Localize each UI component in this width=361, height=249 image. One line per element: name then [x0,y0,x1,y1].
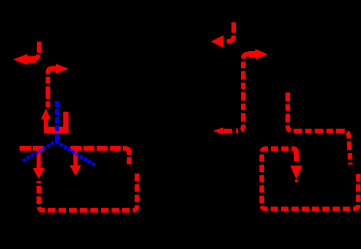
arrowhead: right circuit discharge loop, pointing down [290,166,302,183]
wire: left circuit input path vertical segment with corner [29,42,39,59]
wire: right circuit switch path corner and long vertical run [236,54,249,131]
wire: right circuit mid rail dash [224,129,232,133]
wire: right circuit inner loop corner down to arrow [293,149,297,161]
arrowhead: left circuit input path, pointing left [13,54,37,65]
wire: blue right diagonal dotted branch [57,142,93,164]
arrowhead: right circuit input path, pointing left [211,35,224,47]
wire: blue left diagonal dotted branch [21,141,57,163]
wire: right circuit discharge loop feed vertical with corner right [288,93,351,165]
wire: right circuit discharge loop right side lower segment and bottom [262,149,359,209]
wire: left circuit ground rail left segment [20,146,46,151]
arrowhead: left circuit switch path, pointing right [56,64,69,74]
arrowhead: left loop left branch, pointing down [33,147,45,179]
wire: left circuit bottom loop (right side, bottom, left side) [39,174,137,211]
wire: blue node stem, vertical dashed [55,101,59,143]
wire: right circuit input path vertical segment with corner [226,22,234,41]
wire: left circuit U-shaped return segment [44,112,69,133]
arrowhead: right circuit mid rail, pointing left [213,127,223,134]
wire: left circuit switch path corner and vertical run down [48,68,56,107]
wire: left circuit ground rail right segment with corner down [70,148,129,164]
arrowhead: left loop right branch, pointing down [70,147,82,176]
arrowhead: left circuit return path, pointing up [41,108,51,119]
arrowhead: right circuit switch path, pointing right [249,49,268,60]
